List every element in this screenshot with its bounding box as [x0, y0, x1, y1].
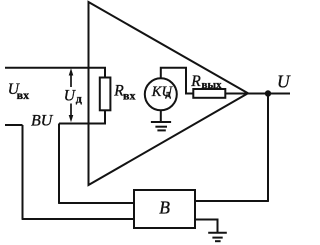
wire: output feedback vertical — [267, 94, 269, 202]
svg-text:U: U — [277, 72, 291, 92]
ground under source — [151, 122, 171, 130]
label KU_d — [151, 84, 174, 100]
wire: inverting node vertical down — [58, 124, 60, 204]
svg-text:BU: BU — [31, 113, 54, 130]
wire: BU stub left — [5, 124, 23, 126]
wire: source top to Rvyx — [161, 68, 194, 94]
wire: source bottom stem — [160, 110, 162, 122]
wire: B box lower-right to ground — [195, 220, 218, 233]
label U_vx — [8, 81, 29, 102]
svg-text:д: д — [76, 91, 82, 105]
svg-text:B: B — [159, 198, 170, 218]
dependent source U2 KU_d circle — [145, 78, 177, 110]
label U_d — [64, 87, 82, 105]
label R_vx — [113, 82, 135, 102]
wire: B box upper-right to feedback — [195, 200, 269, 202]
ground bottom right — [208, 233, 227, 241]
wire: BU vertical down — [22, 125, 24, 219]
label R_vyx — [190, 73, 222, 91]
svg-text:вх: вх — [17, 88, 29, 102]
op-amp U1 triangle — [89, 2, 249, 185]
wire: Uvx input top — [5, 68, 105, 78]
wire: Rvyx to output — [225, 93, 290, 95]
node: output junction — [265, 90, 271, 96]
svg-text:д: д — [165, 88, 171, 100]
arrow U_d up — [69, 68, 74, 87]
resistor R2 Rvyx body — [193, 89, 225, 98]
wire: inverting input bottom — [59, 110, 105, 123]
feedback block B — [134, 190, 195, 228]
wire: to B box upper-left — [58, 202, 134, 204]
svg-text:вх: вх — [123, 89, 135, 103]
resistor R1 Rvx body — [100, 78, 111, 111]
svg-text:R: R — [190, 73, 201, 90]
svg-text:вых: вых — [202, 79, 223, 91]
wire: BU to B box lower-left — [22, 218, 134, 220]
arrow U_d down — [69, 104, 74, 123]
